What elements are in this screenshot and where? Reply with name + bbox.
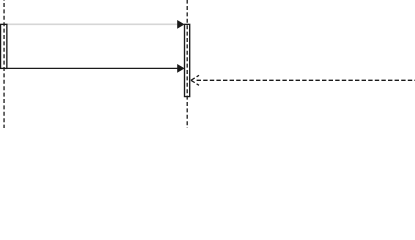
activation bar left [1,24,7,68]
message 1 line (gray) [7,23,179,25]
message 3 return line (dashed) [197,79,415,81]
lifeline right [186,0,188,128]
message 3 open arrowhead lower barb [191,80,199,85]
message 2 arrowhead (filled) [177,64,184,73]
message 3 open arrowhead upper barb [191,75,199,80]
message 1 arrowhead (filled) [177,20,184,29]
message 2 line (black) [7,67,179,69]
activation bar right [185,24,190,96]
lifeline left [3,0,5,128]
